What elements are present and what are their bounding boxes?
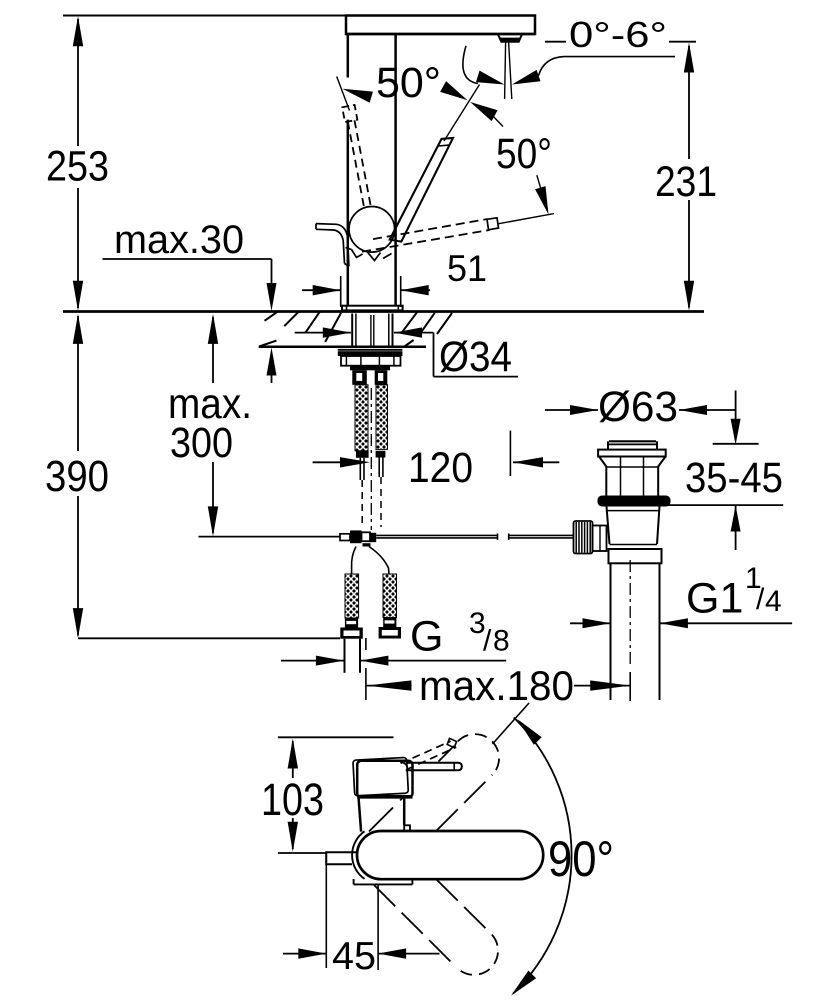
svg-text:0°-6°: 0°-6° (569, 14, 667, 55)
svg-text:50°: 50° (376, 59, 441, 107)
svg-text:120: 120 (408, 444, 473, 492)
svg-text:max.30: max.30 (114, 218, 244, 262)
svg-text:50°: 50° (496, 130, 552, 178)
svg-text:/: / (756, 583, 765, 616)
svg-text:231: 231 (655, 158, 717, 206)
svg-text:/: / (483, 625, 492, 658)
svg-text:8: 8 (493, 625, 510, 658)
svg-text:300: 300 (170, 419, 233, 467)
svg-text:253: 253 (46, 143, 109, 191)
svg-text:390: 390 (45, 452, 109, 501)
svg-text:G1: G1 (686, 575, 743, 623)
svg-text:Ø34: Ø34 (439, 333, 512, 381)
svg-text:51: 51 (447, 248, 487, 289)
svg-text:45: 45 (332, 935, 376, 978)
svg-text:103: 103 (261, 774, 324, 825)
svg-text:Ø63: Ø63 (598, 383, 678, 431)
svg-text:max.180: max.180 (419, 662, 574, 709)
svg-text:G: G (410, 613, 443, 661)
svg-text:90°: 90° (548, 831, 614, 887)
svg-text:4: 4 (765, 585, 782, 618)
svg-text:35-45: 35-45 (685, 454, 783, 502)
